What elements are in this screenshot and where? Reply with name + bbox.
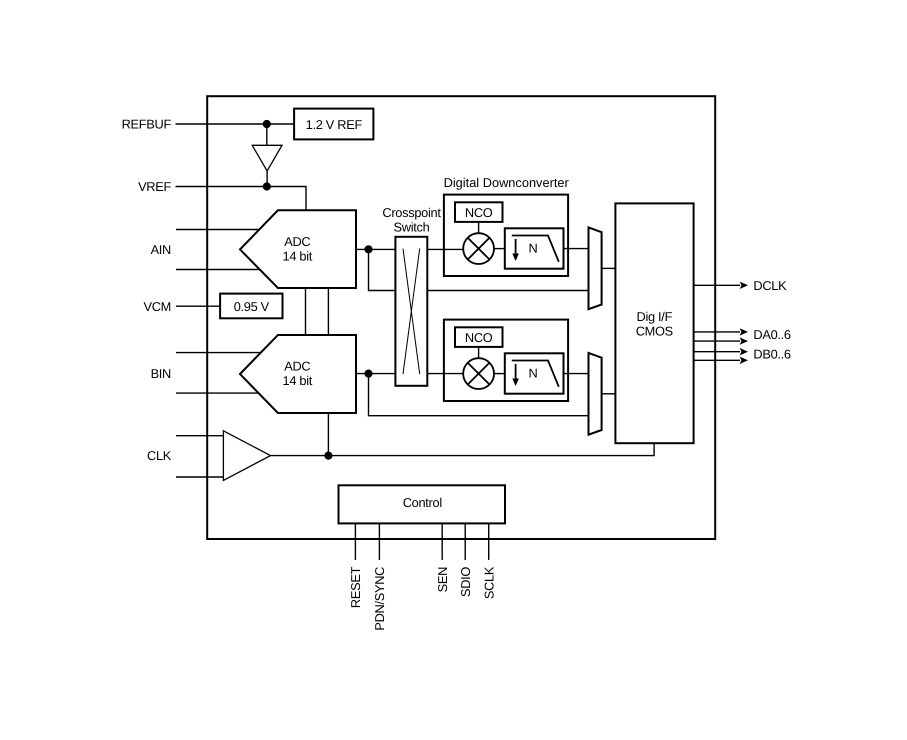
wire mux2 output to Dig I/F — [602, 393, 616, 395]
1.2 V REF box — [294, 109, 373, 140]
wire AIN minus — [176, 269, 261, 271]
clock buffer amp (triangle pointing right) — [223, 431, 270, 481]
pin wire RESET — [354, 523, 356, 560]
wire CLK plus — [176, 435, 223, 437]
wire ADC A branch to crosspoint second input — [369, 249, 396, 290]
wire mux1 output to Dig I/F — [602, 267, 616, 269]
mixer circle (DDC1) — [463, 233, 494, 264]
pin wire SDIO — [464, 523, 466, 560]
svg-text:REFBUF: REFBUF — [122, 116, 172, 131]
ADC A (14 bit) pentagon — [240, 210, 356, 288]
wire DB bus line 1 — [694, 351, 740, 353]
svg-text:SEN: SEN — [435, 567, 450, 592]
wire buffer output down to VREF net — [266, 171, 268, 187]
svg-text:N: N — [529, 241, 538, 256]
svg-text:SCLK: SCLK — [481, 566, 496, 599]
svg-text:SDIO: SDIO — [458, 567, 473, 597]
svg-text:DB0..6: DB0..6 — [753, 346, 791, 361]
wire ADC B output to crosspoint — [356, 373, 395, 375]
pin wire SCLK — [488, 523, 490, 560]
DDC2 box — [444, 320, 568, 401]
wire ADC B bottom to clock net — [327, 413, 329, 456]
svg-text:DCLK: DCLK — [753, 278, 787, 293]
junction dot on REFBUF wire — [263, 120, 271, 128]
NCO box (DDC2) — [455, 327, 503, 347]
svg-text:VCM: VCM — [143, 299, 171, 314]
filter response curve (DDC2) — [512, 361, 559, 387]
wire DDC1 output to mux1 — [564, 248, 589, 250]
svg-text:0.95 V: 0.95 V — [234, 299, 270, 314]
0.95 V box — [220, 294, 282, 319]
svg-text:14 bit: 14 bit — [283, 373, 313, 388]
svg-text:VREF: VREF — [138, 179, 171, 194]
svg-text:NCO: NCO — [465, 330, 493, 345]
crosspoint X diagonal 2 — [403, 249, 420, 374]
svg-text:Crosspoint: Crosspoint — [382, 205, 441, 220]
svg-text:ADC: ADC — [284, 359, 310, 374]
svg-text:RESET: RESET — [348, 566, 363, 608]
svg-text:ADC: ADC — [284, 234, 310, 249]
wire VREF — [176, 187, 307, 211]
svg-text:AIN: AIN — [151, 242, 171, 257]
wire crosspoint bypass to mux1 — [427, 290, 588, 292]
wire crosspoint to DDC1 mixer — [427, 248, 463, 250]
outer chip boundary box — [207, 96, 715, 539]
junction dot on clock net — [324, 452, 332, 460]
reference buffer amp (triangle pointing down) — [252, 145, 282, 171]
wire ADC A output to crosspoint — [356, 248, 395, 250]
crosspoint X diagonal 1 — [403, 249, 420, 374]
NCO box (DDC1) — [455, 202, 503, 222]
svg-text:CMOS: CMOS — [636, 323, 673, 338]
wire DA bus line 1 — [694, 331, 740, 333]
svg-text:Digital Downconverter: Digital Downconverter — [444, 175, 570, 190]
wire junction down to ref buffer — [266, 124, 268, 145]
wire VCM to 0.95V box — [176, 305, 220, 307]
decimation down arrow (DDC2) — [515, 364, 517, 380]
junction dot ADC B output — [364, 370, 372, 378]
svg-text:Dig I/F: Dig I/F — [637, 309, 673, 324]
wire BIN plus — [176, 352, 261, 354]
wire NCO to mixer (DDC2) — [478, 347, 480, 358]
mux 2 trapezoid — [589, 353, 602, 435]
wire DCLK output — [694, 284, 740, 286]
DDC1 box — [444, 195, 568, 276]
wire CLK minus — [176, 476, 223, 478]
wire mixer to decimation filter (DDC2) — [494, 373, 505, 375]
svg-text:PDN/SYNC: PDN/SYNC — [372, 567, 387, 631]
svg-text:DA0..6: DA0..6 — [753, 327, 791, 342]
decimation filter box (DDC2) — [505, 353, 564, 393]
junction dot ADC A output — [364, 245, 372, 253]
arrowhead DCLK — [740, 282, 748, 289]
pin wire PDN/SYNC — [378, 523, 380, 560]
svg-text:NCO: NCO — [465, 205, 493, 220]
mux 1 trapezoid — [589, 227, 602, 309]
wire DDC2 output to mux2 — [564, 373, 589, 375]
wire REFBUF to 1.2V REF box — [176, 123, 295, 125]
wire NCO to mixer (DDC1) — [478, 222, 480, 233]
svg-text:Control: Control — [403, 495, 442, 510]
svg-text:14 bit: 14 bit — [283, 249, 313, 264]
interstage connector wires between ADC A and ADC B — [305, 288, 307, 335]
svg-text:1.2 V REF: 1.2 V REF — [306, 117, 363, 132]
wire BIN minus — [176, 392, 259, 394]
junction dot on VREF wire — [263, 182, 271, 190]
pin wire SEN — [441, 523, 443, 560]
wire clock net to Dig I/F — [271, 443, 655, 455]
wire DA bus line 2 — [694, 340, 740, 342]
ADC B (14 bit) pentagon — [240, 335, 356, 413]
wire AIN plus — [176, 229, 260, 231]
mixer X (DDC2) — [468, 363, 490, 385]
wire crosspoint to DDC2 mixer — [427, 373, 463, 375]
crosspoint switch box — [395, 237, 427, 386]
decimation down arrow (DDC1) — [515, 239, 517, 255]
wire DB bus line 2 — [694, 359, 740, 361]
svg-text:Switch: Switch — [394, 220, 430, 235]
decimation filter box (DDC1) — [505, 228, 564, 268]
Dig I/F CMOS box — [615, 203, 693, 443]
Control box — [339, 485, 506, 523]
svg-text:CLK: CLK — [147, 448, 172, 463]
wire mixer to decimation filter (DDC1) — [494, 248, 505, 250]
mixer X (DDC1) — [468, 238, 490, 260]
mixer circle (DDC2) — [463, 358, 494, 389]
filter response curve (DDC1) — [512, 236, 559, 262]
wire ADC B branch bypass to mux2 — [369, 374, 589, 416]
svg-text:BIN: BIN — [151, 366, 171, 381]
svg-text:N: N — [529, 366, 538, 381]
